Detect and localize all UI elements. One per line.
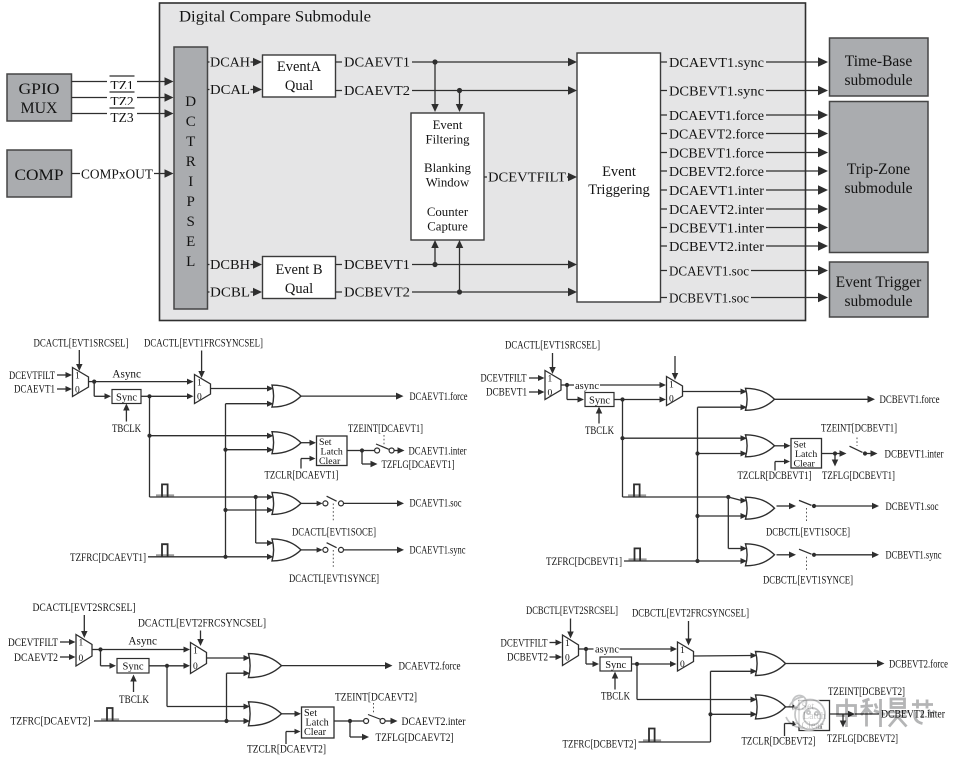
wire node C1 to switch SW1 [362,450,375,452]
wire U7 output to node A4 [579,648,587,650]
junction node A2 [565,383,569,387]
svg-text:async: async [575,380,599,392]
OR gate G8 (DCBEVT1.sync) [746,544,775,566]
pulse glyph on sync rail (one-shot) [156,494,174,496]
svg-text:TZEINT[DCBEVT2]: TZEINT[DCBEVT2] [828,686,905,698]
svg-text:DCBEVT2.inter: DCBEVT2.inter [669,240,764,255]
svg-text:DCEVTFILT: DCEVTFILT [9,370,55,382]
svg-text:0: 0 [79,654,84,664]
switch SW5 lever (SOCE enable) [799,500,812,505]
junction after SW5 [812,504,816,508]
svg-text:L: L [186,254,195,270]
svg-text:TZFLG[DCAEVT1]: TZFLG[DCAEVT1] [382,459,455,471]
svg-text:DCAEVT1.force: DCAEVT1.force [410,391,468,403]
wire DCBEVT1.inter from Event Triggering to submodule [661,221,829,235]
wire TZCLR hook into latch L2 Clear [775,459,790,471]
junction TZFRC rail at G6 row [695,451,699,455]
wire DCEVTFILT into U1 pin 1 [57,372,72,378]
svg-text:DCBEVT1: DCBEVT1 [344,257,410,272]
wire G12 output into latch L4 Set [786,705,800,711]
svg-text:DCAEVT1.inter: DCAEVT1.inter [669,184,764,199]
mux U8 force/sync select (pins 1,0) [678,642,694,671]
mux U2 force/sync select (pins 1,0) [195,375,211,404]
svg-text:GPIO: GPIO [19,81,60,98]
svg-text:DCAEVT1.force: DCAEVT1.force [669,109,764,124]
wire node C3 to switch SW7 [350,720,364,722]
wire node B3 to mux U6 pin 0 [167,663,190,669]
OR gate G10 (DCAEVT2 interrupt) [249,702,282,726]
svg-text:DCAEVT2: DCAEVT2 [14,652,58,664]
svg-text:DCBEVT1.soc: DCBEVT1.soc [669,291,749,306]
block Event B Qual [263,257,336,299]
svg-text:Event: Event [602,164,636,180]
svg-text:Clear: Clear [304,727,327,738]
svg-text:0: 0 [197,392,202,402]
svg-text:Digital Compare Submodule: Digital Compare Submodule [179,9,371,26]
svg-text:Async: Async [112,368,141,380]
svg-text:TBCLK: TBCLK [585,425,614,437]
mux U6 force/sync select (pins 1,0) [191,643,207,674]
svg-text:submodule: submodule [844,72,912,89]
svg-text:DCACTL[EVT2FRCSYNCSEL]: DCACTL[EVT2FRCSYNCSEL] [138,618,266,630]
dotted link DCBCTL[EVT1SOCE] to SW5 [806,508,808,523]
svg-text:DCBCTL[EVT2FRCSYNCSEL]: DCBCTL[EVT2FRCSYNCSEL] [632,608,749,620]
svg-text:C: C [186,114,196,130]
pulse glyph on TZFRC wire [156,554,174,556]
wire G9 output to DCAEVT2.force [282,662,393,669]
wire node C2 down to TZFLG flag (arrow down) [832,454,839,467]
block Sync (B2) [600,657,632,671]
wire DCAEVT2 into U5 pin 0 [60,654,76,660]
select wire into mux U3 [549,353,556,374]
switch SW2 (SOCE enable) contacts [323,496,344,506]
svg-text:DCAEVT1.inter: DCAEVT1.inter [409,445,467,457]
wire DCBH from DCTRIPSEL to Event B Qual [208,258,263,271]
svg-text:TBCLK: TBCLK [119,694,149,706]
junction on DCAEVT1 [432,59,437,64]
svg-text:R: R [186,154,196,170]
svg-text:DCAEVT2: DCAEVT2 [344,83,410,98]
wire DCBEVT2 from Event B Qual to Event Triggering [336,286,578,299]
block GPIO MUX [7,74,72,121]
wire node B1 to mux U2 pin 0 [150,393,194,399]
svg-text:DCEVTFILT: DCEVTFILT [488,170,567,185]
wire DCAEVT2.force from Event Triggering to submodule [661,127,829,141]
svg-text:Sync: Sync [116,392,137,403]
junction on DCBEVT2 [457,289,462,294]
switch SW1 (TZEINT enable) contacts [375,444,395,453]
svg-text:Event: Event [433,118,463,132]
sync rail (B1) down; branch to OR G6 upper input [623,400,748,498]
svg-text:DCACTL[EVT1SOCE]: DCACTL[EVT1SOCE] [292,527,376,539]
svg-text:DCACTL[EVT2SRCSEL]: DCACTL[EVT2SRCSEL] [33,602,136,614]
junction TZFRC rail at G7 row [695,514,699,518]
block Event A Qual [263,55,336,97]
junction TZFRC rail base (B1) [695,559,699,563]
junction node B1 [147,394,151,398]
svg-text:DCAEVT1.sync: DCAEVT1.sync [410,545,466,557]
svg-text:DCBEVT1.sync: DCBEVT1.sync [669,84,764,99]
wire node B1 rail down; branch to OR gate G2 upper input [150,396,274,497]
wire G2 output into latch L1 Set [301,440,316,446]
block Event Filtering / Blanking Window / Counter Capture [411,113,484,240]
junction on G7 feed for G8 branch [726,495,730,499]
wire async from node A4 to mux U8 pin 1 [586,644,677,654]
wire node B2 to mux U4 pin 0 [623,397,667,403]
block Sync (B1) [585,393,614,407]
wire DCBEVT1.sync from Event Triggering to submodule [661,84,829,98]
svg-text:DCACTL[EVT1SYNCE]: DCACTL[EVT1SYNCE] [289,573,379,585]
wire G7 output to switch SW5 [777,503,797,510]
wire SW1 to DCAEVT1.inter [394,447,404,454]
svg-text:DCAH: DCAH [210,55,250,70]
svg-text:E: E [186,234,195,250]
svg-text:TZFLG[DCAEVT2]: TZFLG[DCAEVT2] [376,732,454,744]
wire TBCLK into Sync block (B2) [612,672,619,690]
wire TZFRC[DCAEVT2] to OR G10 lower input [94,718,250,724]
wire Sync output to node B4 [632,663,638,665]
wire DCAEVT2.inter from Event Triggering to submodule [661,202,829,216]
svg-text:DCBEVT2.inter: DCBEVT2.inter [881,709,945,721]
wire node C1 down to TZFLG flag [362,451,378,468]
wire TZFRC rail branch to G6 lower input [698,451,748,457]
wire latch L4 output toward DCBEVT2.inter [830,711,856,718]
junction on sync rail at G2 row [147,434,151,438]
svg-text:1: 1 [680,646,685,656]
svg-text:TZCLR[DCBEVT2]: TZCLR[DCBEVT2] [742,736,816,748]
OR gate G1 (DCAEVT1.force) [272,385,301,407]
svg-text:DCAEVT2.force: DCAEVT2.force [669,127,764,142]
svg-text:DCBEVT2.force: DCBEVT2.force [889,658,948,670]
svg-text:DCEVTFILT: DCEVTFILT [481,372,527,384]
wire DCBEVT1 from Event B Qual to Event Triggering [336,258,578,271]
svg-text:DCAEVT1: DCAEVT1 [344,55,410,70]
block Time-Base submodule [830,38,929,96]
svg-text:0: 0 [193,662,198,672]
svg-text:1: 1 [565,639,570,649]
svg-text:Counter: Counter [427,205,469,219]
wire Async from node A3 to mux U6 pin 1 [101,647,191,653]
dotted link DCACTL[EVT1SYNCE] to SW3 [332,550,334,567]
wire U1 output to node A1 [89,381,95,383]
wire node A4 down into Sync block (B2) [586,649,599,667]
wire DCEVTFILT into U3 pin 1 [529,375,545,381]
latch L1 Set/Latch/Clear [317,436,348,466]
net label TZ3 (active low, overbar) [110,108,135,125]
junction after SW6 [812,553,816,557]
svg-text:DCBH: DCBH [210,257,250,272]
junction node C2 [833,451,837,455]
svg-text:1: 1 [197,378,202,388]
switch SW4 lever (TZEINT enable) [850,446,863,452]
select wire into mux U4 (no label) [672,356,679,380]
wire U3 output to node A2 [561,384,567,386]
wire TZCLR hook into latch L3 Clear [286,729,301,744]
svg-text:DCBL: DCBL [210,285,250,300]
wire node B4 to mux U8 pin 0 [637,661,677,667]
svg-text:DCBEVT1.inter: DCBEVT1.inter [885,448,944,460]
svg-text:Trip-Zone: Trip-Zone [847,161,910,178]
svg-text:D: D [185,94,196,110]
svg-text:Capture: Capture [427,220,468,234]
wire latch L3 output to node C3 [334,720,350,722]
wire sync rail corner to OR G3 upper input [150,494,274,500]
wire TZFRC rail (B2) up to G11 lower input [711,668,758,742]
junction sync rail at G6 row [620,436,624,440]
mux U7 source select (pins 1,0) [563,635,579,666]
wire latch L1 output to node C1 [347,450,362,452]
svg-text:Qual: Qual [285,78,313,94]
svg-text:DCBCTL[EVT1SOCE]: DCBCTL[EVT1SOCE] [766,527,850,539]
wire U2 output to OR gate G1 [211,386,274,392]
svg-text:MUX: MUX [21,100,58,117]
wire DCAEVT1.soc from Event Triggering to submodule [661,264,829,278]
dotted link TZEINT to SW1 [383,435,385,445]
svg-text:Sync: Sync [589,395,610,406]
junction TZFRC rail base [223,555,227,559]
wire U8 output to OR gate G11 [694,653,758,659]
svg-text:TZFRC[DCBEVT2]: TZFRC[DCBEVT2] [563,739,637,751]
wire SW3 to DCAEVT1.sync [344,547,405,554]
wire DCAEVT1 branch down into Event Filtering [431,62,439,112]
pulse glyph on sync rail (B1) [628,494,646,496]
junction on TZFRC rail at G3 row [223,508,227,512]
switch SW7 (TZEINT enable) contacts [364,715,386,724]
latch L2 Set/Latch/Clear [791,439,822,469]
wire TZCLR hook into latch L4 Clear [785,721,799,736]
block COMP [7,150,72,197]
wire DCBEVT1.soc from Event Triggering to submodule [661,291,829,305]
select wire into mux U8 [685,621,692,646]
svg-text:Async: Async [128,636,157,648]
wire G5 output to DCBEVT1.force [775,396,876,403]
svg-text:DCACTL[EVT1SRCSEL]: DCACTL[EVT1SRCSEL] [505,340,600,352]
watermark logo circle outline [786,696,825,730]
wire DCBEVT1.force from Event Triggering to submodule [661,146,829,160]
wire TZCLR hook into latch Clear [301,456,316,469]
svg-text:TZFRC[DCBEVT1]: TZFRC[DCBEVT1] [546,556,622,568]
wire SW4 to DCBEVT1.inter [865,450,878,457]
svg-text:DCBCTL[EVT1SYNCE]: DCBCTL[EVT1SYNCE] [763,575,853,587]
svg-text:1: 1 [75,371,80,381]
wire TZ1 from GPIO MUX to DCTRIPSEL [72,73,174,87]
wire DCAL from DCTRIPSEL to Event A Qual [208,83,263,96]
wire TBCLK into Sync block [123,404,129,422]
svg-text:TZCLR[DCBEVT1]: TZCLR[DCBEVT1] [738,470,812,482]
svg-text:DCEVTFILT: DCEVTFILT [8,637,58,649]
OR gate G3 (DCAEVT1.soc) [272,492,301,514]
wire SW7 to DCAEVT2.inter [385,718,397,725]
svg-text:TZ3: TZ3 [110,110,133,125]
svg-text:Event B: Event B [275,262,322,278]
dotted link TZEINT to SW7 [373,703,375,714]
svg-text:TZCLR[DCAEVT1]: TZCLR[DCAEVT1] [265,470,339,482]
dotted link DCACTL[EVT1SOCE] to SW2 [332,504,334,521]
select wire into mux U2 [198,351,205,379]
wire DCBEVT1 branch up into Event Filtering [431,240,439,265]
block Sync (flip-flop synchronizer) [112,390,141,404]
junction node A1 [92,380,96,384]
svg-text:DCAEVT1.soc: DCAEVT1.soc [669,264,749,279]
svg-text:DCAEVT1: DCAEVT1 [14,384,55,396]
svg-text:DCBEVT2: DCBEVT2 [507,652,548,664]
wire Async from node A1 to mux U2 pin 1 [94,379,193,385]
wire continues to DCBEVT2.inter label [855,713,879,715]
svg-text:TZEINT[DCAEVT2]: TZEINT[DCAEVT2] [335,692,417,704]
pulse glyph on TZFRC wire (A2) [101,718,119,720]
svg-text:T: T [186,134,195,150]
OR gate G7 (DCBEVT1.soc) [746,497,775,519]
svg-text:TZEINT[DCBEVT1]: TZEINT[DCBEVT1] [821,423,897,435]
junction node C3 [348,719,352,723]
wire branch down to OR G4 upper input [256,497,274,546]
svg-text:TZEINT[DCAEVT1]: TZEINT[DCAEVT1] [348,423,423,435]
pulse glyph on TZFRC wire (B2) [643,739,661,741]
wire DCAH from DCTRIPSEL to Event A Qual [208,56,263,69]
svg-text:DCBEVT1.force: DCBEVT1.force [669,146,764,161]
wire U4 output to OR gate G5 [683,389,748,395]
wire U5 output to node A3 [92,649,101,651]
wire DCEVTFILT into U7 pin 1 [550,640,563,646]
svg-text:DCAEVT2.inter: DCAEVT2.inter [402,716,466,728]
junction TZFRC rail base (A2) [224,719,228,723]
block Sync (A2) [117,659,149,674]
svg-text:P: P [187,194,195,210]
sync rail (B2) down to OR G12 upper input [637,664,757,703]
junction node B3 [165,664,169,668]
wire SW5 to DCBEVT1.soc [814,503,879,510]
svg-text:DCAEVT1.sync: DCAEVT1.sync [669,56,764,71]
block Event Triggering [577,53,661,302]
wire DCEVTFILT into U5 pin 1 [60,639,76,645]
svg-text:0: 0 [669,394,674,404]
wire sync rail corner to OR G7 upper input [623,497,748,504]
dotted link DCBCTL[EVT1SYNCE] to SW6 [806,557,808,571]
wire TZ2 from GPIO MUX to DCTRIPSEL [72,89,174,103]
wire TZFRC[DCBEVT1] to OR G8 lower input [624,558,747,564]
wire DCAEVT1 into U1 pin 0 [57,386,72,392]
OR gate G12 (DCBEVT2 interrupt) [756,695,786,719]
wire TZFRC rail (A2) up to G9 lower input [227,670,251,721]
wire DCBEVT2.force from Event Triggering to submodule [661,164,829,178]
wire Sync output to node B2 [614,399,623,401]
wire TZFRC vertical rail up to G1 lower input [226,401,274,557]
select wire into mux U1 [76,350,83,371]
junction on DCAEVT2 [457,88,462,93]
mux U5 source select (pins 1,0) [76,635,92,667]
svg-text:DCACTL[EVT1FRCSYNCSEL]: DCACTL[EVT1FRCSYNCSEL] [144,338,263,350]
wire TZFRC rail branch to G2 lower input [226,447,274,453]
latch L3 Set/Latch/Clear [302,707,335,738]
wire TZFRC rail branch to G7 lower input [698,513,748,519]
wire down to TZFLG flag (B2, arrow down) [840,714,847,728]
svg-text:TZCLR[DCAEVT2]: TZCLR[DCAEVT2] [247,744,326,756]
svg-text:0: 0 [75,385,80,395]
wire G8 output to switch SW6 [777,552,797,559]
svg-text:TZFLG[DCBEVT2]: TZFLG[DCBEVT2] [827,733,898,745]
wire node C2 toward switch SW4 [835,450,847,457]
svg-text:DCAEVT1.soc: DCAEVT1.soc [410,498,462,510]
svg-text:Event Trigger: Event Trigger [836,274,923,291]
wire G10 output into latch L3 Set [282,711,302,717]
wire TZFRC rail branch to G12 lower input [711,711,758,717]
wire DCEVTFILT from Event Filtering to Event Triggering [484,171,577,184]
wire U6 output to OR gate G9 [207,655,251,661]
svg-text:DCBEVT1.force: DCBEVT1.force [880,394,940,406]
svg-text:Blanking: Blanking [424,161,472,175]
switch SW3 (SYNCE enable) contacts [323,543,344,553]
svg-text:DCBEVT1.soc: DCBEVT1.soc [886,501,939,513]
sync rail (A2) down to OR G10 upper input [167,666,250,710]
svg-text:DCAEVT2.force: DCAEVT2.force [399,661,461,673]
wire TBCLK into Sync block (B1) [596,407,603,424]
select wire into mux U5 [81,615,88,638]
junction node A4 [584,647,588,651]
block DCTRIPSEL [174,47,208,309]
wire G6 output into latch L2 Set [775,443,791,449]
wire DCAEVT2 from Event A Qual to Event Triggering [336,84,578,97]
svg-text:0: 0 [548,388,553,398]
wire branch down to OR G8 upper input [728,497,747,552]
wire node C3 down to TZFLG flag (A2) [350,721,369,740]
wire node A2 down into Sync block (B1) [567,385,584,403]
select wire into mux U7 [567,619,574,639]
wire DCAEVT1 from Event A Qual to Event Triggering [336,56,578,69]
svg-text:TBCLK: TBCLK [601,691,630,703]
OR gate G11 (DCBEVT2.force) [756,652,786,676]
svg-text:1: 1 [79,639,84,649]
svg-text:DCBEVT1.inter: DCBEVT1.inter [669,221,764,236]
svg-text:Qual: Qual [285,281,313,297]
OR gate G6 (DCBEVT1 interrupt) [746,435,775,457]
svg-text:TZFLG[DCBEVT1]: TZFLG[DCBEVT1] [822,470,895,482]
wire DCBL from DCTRIPSEL to Event B Qual [208,286,263,299]
wire TZ3 from GPIO MUX to DCTRIPSEL [72,105,174,119]
svg-text:Window: Window [426,176,470,190]
watermark text zhong ke hao xin [838,699,935,728]
junction node A3 [98,647,102,651]
svg-text:DCAL: DCAL [210,82,250,97]
wire DCAEVT1.force from Event Triggering to submodule [661,108,829,122]
mux U4 force/sync select (pins 1,0) [667,377,683,406]
svg-text:DCBEVT1: DCBEVT1 [486,386,527,398]
svg-text:Triggering: Triggering [588,182,650,198]
svg-text:TBCLK: TBCLK [112,423,141,435]
svg-text:submodule: submodule [844,293,912,310]
svg-text:Clear: Clear [319,456,341,467]
junction node C1 [360,448,364,452]
svg-text:DCBEVT1.sync: DCBEVT1.sync [886,550,942,562]
wire G3 output to switch SW2 [301,501,323,506]
svg-text:Sync: Sync [605,660,626,671]
svg-text:0: 0 [680,660,685,670]
wire TZFRC rail (B1) up to G5 lower input [698,404,748,561]
svg-text:1: 1 [548,374,553,384]
wire Sync output to node B1 [141,395,150,397]
svg-text:Filtering: Filtering [425,133,470,147]
junction on G3 feed for G4 branch [254,495,258,499]
wire latch L2 output to node C2 [822,453,836,455]
wire DCBEVT2 branch up into Event Filtering [456,240,464,292]
junction on DCBEVT1 [432,262,437,267]
net label TZ1 (active low, overbar) [110,76,135,93]
svg-text:DCACTL[EVT1SRCSEL]: DCACTL[EVT1SRCSEL] [34,338,129,350]
block Trip-Zone submodule [830,102,929,253]
wire SW6 to DCBEVT1.sync [814,552,879,559]
junction node B2 [620,397,624,401]
svg-text:DCBEVT2.force: DCBEVT2.force [669,165,764,180]
dotted link TZEINT to SW4 [856,438,858,447]
